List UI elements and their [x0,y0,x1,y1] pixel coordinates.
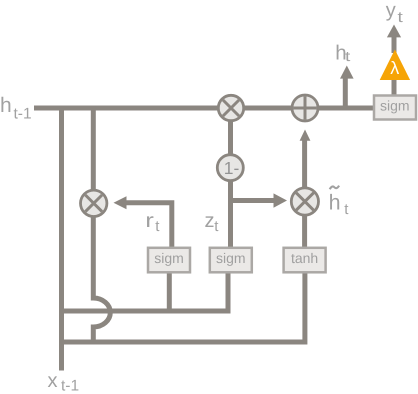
svg-text:1-: 1- [224,158,240,178]
svg-text:t: t [345,48,350,64]
svg-text:tanh: tanh [291,250,318,266]
svg-text:t: t [155,218,160,235]
svg-text:h: h [0,94,12,117]
svg-text:sigm: sigm [216,250,246,266]
svg-text:t: t [214,218,219,235]
svg-text:t-1: t-1 [61,377,79,394]
svg-text:sigm: sigm [154,250,184,266]
svg-text:h: h [329,191,341,215]
svg-text:sigm: sigm [380,98,410,114]
svg-text:z: z [205,210,215,232]
svg-text:λ: λ [390,58,399,78]
svg-text:t: t [398,9,404,26]
svg-text:y: y [386,0,396,22]
svg-text:t: t [344,201,349,218]
svg-text:t-1: t-1 [14,105,32,122]
svg-text:x: x [48,370,58,392]
svg-text:r: r [145,210,154,232]
